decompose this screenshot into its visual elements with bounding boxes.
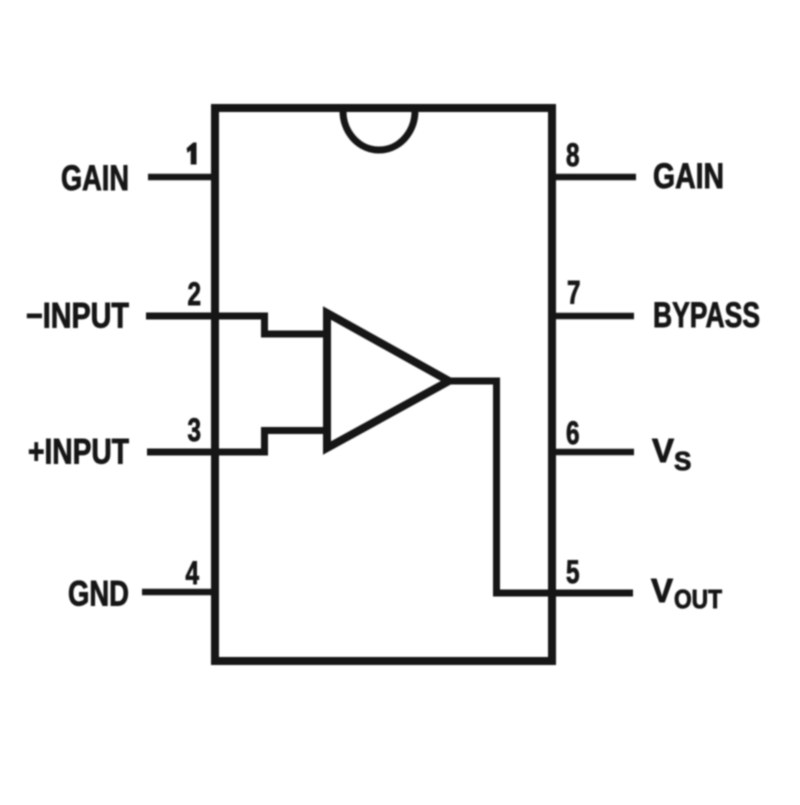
pin 3 label +INPUT [28,433,129,472]
pin 6 lead wire [548,449,634,456]
pin number 2 [188,276,202,312]
pin 1 lead wire [148,174,219,181]
svg-text:5: 5 [566,554,580,590]
pin 8 lead wire [548,174,636,181]
svg-text:GND: GND [68,575,129,614]
pin number 7 [567,275,581,311]
svg-text:+INPUT: +INPUT [28,433,129,472]
svg-text:4: 4 [186,555,200,591]
index notch [343,111,415,150]
svg-text:V: V [651,572,673,609]
svg-text:8: 8 [566,137,580,173]
pin 2 label -INPUT [26,297,129,336]
pin number 8 [566,137,580,173]
pin 3 lead wire to op-amp non-inverting input [147,431,330,453]
pin 6 label VS [652,432,691,476]
pin 1 label GAIN [61,159,129,198]
output wire from op-amp apex to pin 5 [449,381,633,593]
pin 5 label VOUT [651,572,722,614]
svg-text:−INPUT: −INPUT [26,297,129,336]
pin 2 lead wire to op-amp inverting input [146,316,330,334]
pin number 4 [186,555,200,591]
svg-text:BYPASS: BYPASS [653,296,760,335]
pin number 3 [188,412,202,448]
svg-text:V: V [652,432,674,469]
svg-text:OUT: OUT [674,584,722,614]
svg-text:GAIN: GAIN [653,157,724,196]
svg-text:7: 7 [567,275,581,311]
pin 4 lead wire [142,589,219,596]
pin 7 lead wire [548,313,634,320]
svg-text:GAIN: GAIN [61,159,129,198]
pin number 1 [187,143,197,165]
pin 4 label GND [68,575,129,614]
pin 8 label GAIN [653,157,724,196]
op-amp U1 amplifier triangle [327,313,449,448]
svg-text:S: S [674,446,691,476]
pin number 6 [566,415,580,451]
IC package U1 body [215,108,552,661]
svg-text:6: 6 [566,415,580,451]
pin 7 label BYPASS [653,296,760,335]
svg-text:2: 2 [188,276,202,312]
pin number 5 [566,554,580,590]
svg-text:3: 3 [188,412,202,448]
